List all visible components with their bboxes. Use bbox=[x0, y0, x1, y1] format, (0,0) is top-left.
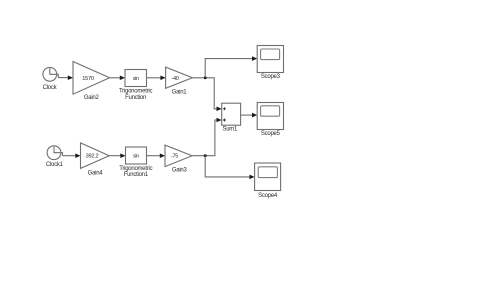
wire branch up to Scope3 bbox=[205, 59, 252, 78]
wire Gain4 to Trigonometric Function1 bbox=[109, 155, 121, 157]
block Trigonometric Function1 (sin) bbox=[126, 147, 147, 164]
scope Scope3 bbox=[257, 46, 283, 73]
svg-text:Clock1: Clock1 bbox=[46, 162, 64, 168]
svg-text:Scope4: Scope4 bbox=[258, 193, 278, 199]
svg-text:1570: 1570 bbox=[82, 76, 94, 82]
arrowhead into Trigonometric Function bbox=[120, 76, 125, 81]
svg-text:-75: -75 bbox=[171, 154, 178, 160]
gain Gain3 value -75 bbox=[165, 145, 192, 167]
arrowhead into Scope5 bbox=[252, 113, 257, 118]
svg-text:Function: Function bbox=[125, 95, 146, 101]
arrowhead into Sum1 input 2 bbox=[217, 118, 222, 123]
gain Gain2 value 1570 bbox=[73, 62, 110, 95]
svg-text:Gain4: Gain4 bbox=[88, 171, 104, 177]
junction node after Gain3 bbox=[204, 154, 207, 157]
wire Trigonometric Function1 to Gain3 bbox=[147, 155, 161, 157]
wire Trigonometric Function to Gain1 bbox=[147, 77, 162, 79]
svg-text:Sum1: Sum1 bbox=[222, 127, 238, 133]
svg-text:Trigonometric: Trigonometric bbox=[119, 89, 152, 95]
svg-text:-40: -40 bbox=[171, 76, 178, 82]
wire Gain2 to Trigonometric Function bbox=[110, 77, 121, 79]
wire Clock to Gain2 bbox=[58, 77, 68, 79]
svg-text:Scope5: Scope5 bbox=[261, 131, 281, 137]
svg-text:392.2: 392.2 bbox=[86, 154, 99, 160]
arrowhead into Gain4 bbox=[75, 153, 80, 158]
plus sign input 1 bbox=[223, 107, 226, 110]
wire Clock1 to Gain4 bbox=[63, 155, 77, 157]
wire Gain1 output to branch bbox=[192, 78, 216, 109]
wire branch down to Scope4 bbox=[205, 156, 249, 177]
arrowhead into Trigonometric Function1 bbox=[120, 153, 125, 158]
wire Sum1 to Scope5 bbox=[241, 114, 252, 116]
svg-text:Function1: Function1 bbox=[124, 172, 149, 178]
block Trigonometric Function (sin) bbox=[125, 70, 147, 87]
arrowhead into Gain3 bbox=[160, 153, 165, 158]
arrowhead into Sum1 input 1 bbox=[217, 107, 222, 112]
arrowhead into Scope3 bbox=[252, 56, 257, 61]
svg-text:Clock: Clock bbox=[43, 85, 58, 91]
sum block Sum1 bbox=[222, 103, 241, 125]
scope Scope4 bbox=[255, 163, 281, 191]
gain Gain4 value 392.2 bbox=[81, 143, 110, 169]
svg-text:sin: sin bbox=[133, 76, 139, 82]
svg-text:Scope3: Scope3 bbox=[261, 74, 281, 80]
plus sign input 2 bbox=[223, 119, 226, 122]
svg-text:Gain1: Gain1 bbox=[172, 90, 188, 96]
clock source Clock bbox=[43, 67, 58, 81]
arrowhead into Scope4 bbox=[249, 175, 254, 180]
scope Scope5 bbox=[257, 103, 283, 130]
wire Gain3 output to branch and up to Sum1 input 2 bbox=[192, 120, 216, 156]
svg-text:Gain2: Gain2 bbox=[84, 95, 100, 101]
arrowhead into Gain1 bbox=[160, 76, 165, 81]
arrowhead into Gain2 bbox=[68, 75, 73, 80]
gain Gain1 value -40 bbox=[166, 67, 193, 88]
svg-text:Trigonometric: Trigonometric bbox=[119, 166, 152, 172]
svg-text:Gain3: Gain3 bbox=[172, 167, 188, 173]
clock source Clock1 bbox=[47, 146, 62, 160]
svg-text:sin: sin bbox=[133, 154, 139, 160]
junction node after Gain1 bbox=[204, 76, 207, 79]
